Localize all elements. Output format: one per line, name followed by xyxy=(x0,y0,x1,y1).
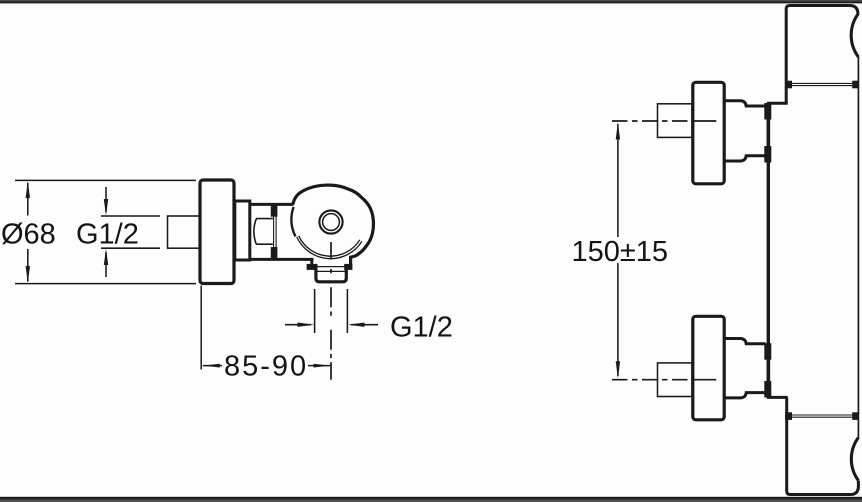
85-90 dimension line xyxy=(203,365,222,367)
outlet flange ears xyxy=(307,264,318,270)
wall bar outline xyxy=(786,6,858,104)
nut bar double lines xyxy=(273,216,275,248)
dimension line D68 xyxy=(27,183,29,216)
extension line bottom (diameter 68) xyxy=(15,283,196,285)
outlet centerline xyxy=(330,242,332,380)
arrow down D68 xyxy=(26,266,30,283)
outlet left shoulder xyxy=(310,259,313,267)
wall bar right edge xyxy=(857,57,859,438)
svg-text:G1/2: G1/2 xyxy=(76,219,139,251)
bottom pipe stub xyxy=(658,363,693,397)
svg-text:85-90: 85-90 xyxy=(224,351,308,383)
arrow up D68 xyxy=(26,181,30,198)
extension line bottom (G1/2 inlet) xyxy=(101,247,160,249)
union mid box bottom line to outlet xyxy=(250,258,314,261)
bottom crop border xyxy=(0,497,862,500)
outlet nut thin inner line xyxy=(316,270,347,272)
ext line left (85-90) from escutcheon xyxy=(200,286,202,370)
top nut double lines xyxy=(766,120,768,147)
nut bar blobs xyxy=(271,206,277,216)
inner nut (front) xyxy=(254,219,273,245)
top crop border xyxy=(0,0,862,1)
top nut blobs xyxy=(764,103,771,120)
arrow up G1/2 xyxy=(105,252,107,277)
handle hub inner circle xyxy=(323,214,340,231)
supply pipe stub xyxy=(168,216,201,248)
ext lines bottom G1/2 xyxy=(314,289,316,333)
top centerline xyxy=(612,120,716,122)
arrow down G1/2 xyxy=(105,187,107,212)
seam top xyxy=(790,82,854,84)
outlet nut box xyxy=(316,269,346,282)
handle arc bottom xyxy=(851,438,858,481)
top union step bottom xyxy=(725,156,766,161)
bottom nut blobs xyxy=(764,343,771,360)
dim line 150+-15 xyxy=(617,124,619,237)
bottom nut double lines xyxy=(766,360,768,381)
svg-text:Ø68: Ø68 xyxy=(1,219,56,251)
top pipe stub xyxy=(658,104,693,138)
union step box xyxy=(235,201,250,260)
bottom centerline xyxy=(612,379,716,381)
top escutcheon xyxy=(693,82,724,184)
G1/2 bottom arrows xyxy=(285,324,311,326)
svg-text:G1/2: G1/2 xyxy=(390,312,453,344)
body left edge (between ports) xyxy=(767,110,770,392)
bottom union step top xyxy=(725,339,766,344)
handle hub outer circle xyxy=(319,210,342,233)
wall escutcheon xyxy=(200,180,234,284)
top union step top xyxy=(725,101,766,106)
body bottom thin arcs xyxy=(297,237,362,259)
extension line top (diameter 68) xyxy=(15,179,196,181)
union mid box top line to body xyxy=(250,203,294,206)
valve body outline xyxy=(293,185,374,267)
bottom escutcheon xyxy=(693,316,724,420)
seam bottom xyxy=(790,414,854,416)
body left side arc xyxy=(291,207,295,237)
handle arc top xyxy=(851,14,858,58)
top port top line xyxy=(767,102,788,105)
wall bar bottom xyxy=(787,397,859,494)
extension line top (G1/2 inlet) xyxy=(101,215,160,217)
outlet flange thin line xyxy=(317,266,345,268)
bottom union step bottom xyxy=(725,393,766,398)
svg-text:150±15: 150±15 xyxy=(572,236,669,268)
bottom port bottom line xyxy=(767,396,788,399)
